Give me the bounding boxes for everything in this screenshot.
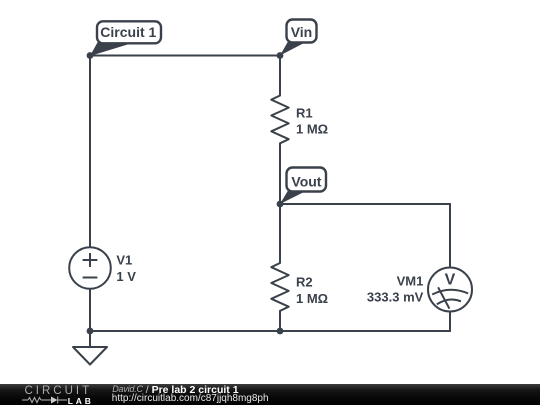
footer url line bbox=[112, 393, 269, 404]
svg-text:R1: R1 bbox=[296, 105, 313, 120]
logo CIRCUIT word bbox=[25, 385, 93, 397]
wire R2 bottom to rail bbox=[279, 311, 281, 331]
svg-text:VM1: VM1 bbox=[397, 273, 424, 288]
wire left vertical to V1 top bbox=[89, 56, 91, 248]
ground bbox=[73, 331, 107, 365]
wire top rail Circuit1-to-Vin bbox=[90, 55, 280, 57]
voltmeter VM1 bbox=[428, 268, 472, 312]
footer title line bbox=[112, 384, 238, 396]
logo LAB word bbox=[68, 396, 94, 406]
wire R1 bottom to Vout node bbox=[279, 143, 281, 204]
wire VM1 bottom lead bbox=[449, 311, 451, 331]
node Vout balloon bbox=[280, 168, 326, 205]
svg-text:Vout: Vout bbox=[291, 173, 321, 189]
wire V1 bottom to ground rail bbox=[89, 289, 91, 331]
node Circuit 1 balloon bbox=[90, 21, 161, 56]
svg-text:1 MΩ: 1 MΩ bbox=[296, 122, 328, 137]
label R1 value bbox=[296, 105, 328, 136]
junction dot ground bbox=[87, 328, 94, 335]
junction dot R2 bottom bbox=[277, 328, 284, 335]
label R2 value bbox=[296, 274, 328, 305]
label V1 value bbox=[116, 252, 136, 284]
svg-text:333.3 mV: 333.3 mV bbox=[367, 290, 424, 305]
wire Vin node to R1 top bbox=[279, 56, 281, 96]
svg-text:Vin: Vin bbox=[291, 24, 313, 40]
svg-text:R2: R2 bbox=[296, 274, 313, 289]
wire bottom rail bbox=[90, 330, 450, 332]
label VM1 V glyph bbox=[445, 272, 456, 289]
svg-text:1 MΩ: 1 MΩ bbox=[296, 291, 328, 306]
svg-text:V1: V1 bbox=[116, 252, 132, 267]
wire Vout node to R2 top bbox=[279, 204, 281, 263]
node dot Vin bbox=[277, 52, 284, 59]
svg-text:Circuit 1: Circuit 1 bbox=[100, 24, 156, 40]
resistor R1 bbox=[271, 96, 288, 144]
label VM1 value bbox=[367, 273, 424, 304]
svg-text:V: V bbox=[445, 272, 456, 289]
node Vin balloon bbox=[280, 20, 317, 56]
footer bar bbox=[0, 384, 540, 405]
resistor R2 bbox=[271, 263, 288, 311]
wire Vout node to VM1 corner bbox=[280, 203, 450, 205]
node dot Circuit1 bbox=[87, 52, 94, 59]
voltage source V1 bbox=[69, 247, 111, 289]
wire VM1 top lead bbox=[449, 204, 451, 268]
svg-text:1 V: 1 V bbox=[116, 269, 136, 284]
node dot Vout bbox=[277, 201, 284, 208]
logo resistor-diode line bbox=[22, 396, 68, 404]
